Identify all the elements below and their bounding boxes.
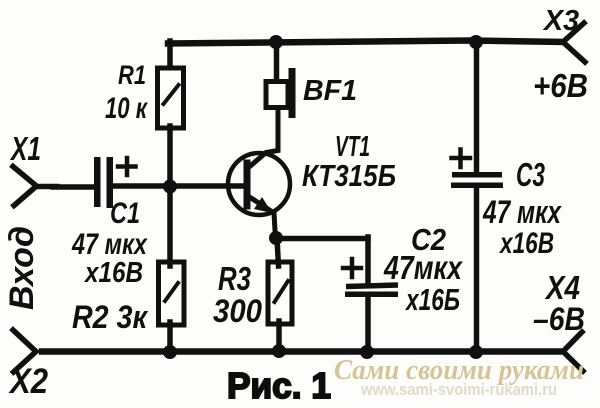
junction: R3 on ground rail bbox=[272, 344, 286, 358]
svg-text:BF1: BF1 bbox=[303, 75, 357, 107]
svg-text:R2 3к: R2 3к bbox=[72, 299, 149, 335]
label +6В bbox=[533, 67, 588, 104]
wire: BF1 to top rail bbox=[274, 43, 280, 81]
svg-text:х16В: х16В bbox=[83, 257, 143, 289]
svg-text:www.sami-svoimi-rukami.ru: www.sami-svoimi-rukami.ru bbox=[360, 380, 557, 399]
junction: BF1 tap on top rail bbox=[269, 35, 283, 49]
label 47 мкх (C3) bbox=[482, 194, 562, 230]
watermark bbox=[334, 354, 584, 399]
label 47мкх (C2) bbox=[383, 249, 463, 286]
wire: R1 top lead to rail bbox=[167, 41, 173, 67]
svg-text:х16Б: х16Б bbox=[405, 282, 460, 317]
svg-text:47 мкх: 47 мкх bbox=[482, 194, 562, 230]
label х16Б (C2) bbox=[405, 282, 460, 317]
svg-text:47мкх: 47мкх bbox=[383, 249, 463, 286]
label VT1 bbox=[335, 131, 370, 163]
label 300 bbox=[213, 293, 262, 329]
junction: base bias node bbox=[163, 180, 177, 194]
connector X2 bbox=[13, 330, 36, 372]
transistor VT1 bbox=[228, 110, 290, 239]
label R3 bbox=[218, 260, 251, 297]
wire: R3 bottom to ground rail bbox=[276, 321, 282, 352]
polarity + of C1 bbox=[118, 158, 136, 175]
junction: C3 on ground rail bbox=[469, 345, 483, 359]
svg-text:–6В: –6В bbox=[533, 301, 585, 337]
resistor R2 bbox=[159, 262, 185, 325]
label КТ315Б bbox=[302, 158, 396, 193]
label -6В bbox=[533, 301, 585, 337]
label 10к bbox=[105, 92, 148, 125]
connector X3 bbox=[563, 23, 585, 62]
wire: ground rail bbox=[42, 348, 563, 355]
label X2 bbox=[8, 362, 48, 401]
label X3 bbox=[542, 5, 579, 37]
label BF1 bbox=[303, 75, 357, 107]
label 47 мкх (C1) bbox=[71, 228, 148, 261]
polarity + of C3 bbox=[452, 150, 471, 168]
label C1 bbox=[110, 197, 140, 230]
caption Рис. 1 bbox=[227, 365, 331, 406]
connector X4 bbox=[563, 332, 583, 371]
wire: top supply rail bbox=[168, 41, 563, 44]
label R2 3к bbox=[72, 299, 149, 335]
wire: emitter down to node and R3 bbox=[277, 238, 279, 266]
polarity + of C2 bbox=[343, 259, 361, 277]
junction: C3 tap on top rail bbox=[469, 35, 483, 49]
headphone BF1 bbox=[266, 68, 296, 118]
connector X1 bbox=[13, 167, 57, 206]
svg-text:10 к: 10 к bbox=[105, 92, 148, 125]
junction: R2 on ground rail bbox=[163, 345, 177, 359]
junction: emitter node bbox=[269, 231, 283, 245]
svg-text:C3: C3 bbox=[516, 156, 545, 193]
svg-text:Рис. 1: Рис. 1 bbox=[227, 365, 331, 406]
capacitor C1 bbox=[94, 157, 113, 208]
resistor R1 bbox=[158, 68, 184, 128]
wire: R1 bottom through base node to R2 top bbox=[167, 126, 173, 266]
label Вход (input) bbox=[3, 226, 41, 310]
svg-text:X1: X1 bbox=[10, 130, 41, 167]
svg-text:R1: R1 bbox=[118, 60, 146, 90]
svg-text:х16В: х16В bbox=[498, 227, 554, 260]
wire: R2 bottom to ground rail bbox=[167, 322, 173, 353]
label С2 bbox=[411, 222, 446, 257]
wire: X1 to C1 bbox=[53, 184, 95, 190]
svg-text:Вход: Вход bbox=[3, 226, 41, 310]
label х16В (C3) bbox=[498, 227, 554, 260]
svg-text:C1: C1 bbox=[110, 197, 140, 230]
label х16В (C1) bbox=[83, 257, 143, 289]
label X1 bbox=[10, 130, 41, 167]
svg-text:R3: R3 bbox=[218, 260, 251, 297]
svg-text:X2: X2 bbox=[8, 362, 48, 401]
label X4 bbox=[544, 269, 580, 306]
capacitor C2 bbox=[345, 237, 398, 353]
svg-text:300: 300 bbox=[213, 293, 262, 329]
svg-text:+6В: +6В bbox=[533, 67, 588, 104]
capacitor C3 bbox=[451, 44, 503, 352]
label C3 bbox=[516, 156, 545, 193]
svg-text:X3: X3 bbox=[542, 5, 579, 37]
wire: C1 to transistor base bbox=[113, 183, 245, 189]
resistor R3 bbox=[268, 262, 292, 324]
svg-text:КТ315Б: КТ315Б bbox=[302, 158, 396, 193]
junction: C2 on ground rail bbox=[360, 345, 374, 359]
wire: emitter node to C2 bbox=[276, 236, 368, 242]
label R1 bbox=[118, 60, 146, 90]
